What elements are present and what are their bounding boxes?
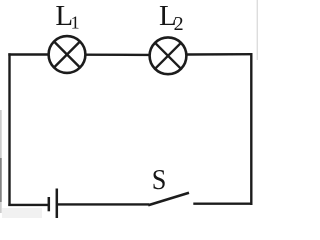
wire top-right segment xyxy=(188,53,253,56)
wire bottom-right segment xyxy=(193,202,252,204)
svg-text:1: 1 xyxy=(71,13,80,33)
svg-text:2: 2 xyxy=(174,13,184,35)
wire left vertical xyxy=(8,53,10,206)
wire right vertical xyxy=(250,53,252,205)
wire top-middle segment xyxy=(87,54,149,57)
lamp L1 xyxy=(49,36,86,73)
wire bottom-middle segment (switch to battery) xyxy=(57,203,149,205)
wire bottom-left segment xyxy=(8,204,48,206)
lamp L2 xyxy=(150,37,187,74)
battery cell xyxy=(49,189,57,219)
wire top-left segment xyxy=(8,53,47,55)
svg-text:S: S xyxy=(152,164,167,196)
switch S blade xyxy=(148,193,189,206)
scan artifacts (edges) xyxy=(0,0,258,218)
